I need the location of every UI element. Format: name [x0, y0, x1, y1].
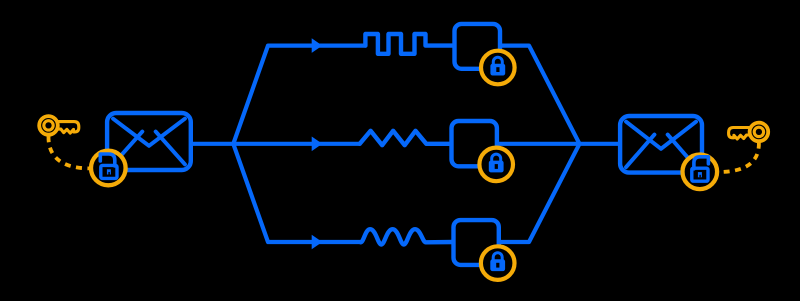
dashed link D2: key K2 to padlock P5: [718, 143, 759, 172]
arrow A3 (bottom): [312, 235, 323, 250]
dashed link D1: key K1 to padlock P4: [48, 136, 90, 168]
arrow A1 (top): [312, 38, 323, 53]
padlock P5 (open, envelope E2): [683, 155, 718, 190]
wire W4: left junction down to bottom row: [233, 144, 360, 242]
zigzag symbol (middle filter): [360, 131, 452, 145]
wire W1: envelope E1 to left junction: [189, 142, 233, 146]
key K2 (receiver key): [729, 123, 769, 142]
envelope E1 (sender): [107, 113, 191, 170]
box B2 (middle key box): [452, 121, 497, 166]
envelope E2 (receiver): [620, 116, 702, 173]
wire W6: middle box to right junction to envelope E2: [497, 142, 620, 146]
padlock P2 (closed, middle box): [479, 148, 513, 182]
key K1 (sender key): [39, 116, 79, 135]
box B3 (bottom key box): [454, 220, 499, 265]
square wave symbol (top filter): [365, 34, 454, 54]
wire W5: top box to right junction: [500, 46, 580, 144]
wire W2: left junction up to top row: [233, 46, 365, 144]
padlock P3 (closed, bottom box): [481, 246, 515, 280]
wire W7: bottom box to right junction: [499, 144, 580, 242]
node J1 (left junction): [231, 142, 235, 146]
padlock P4 (open, envelope E1): [91, 151, 126, 186]
node J2 (right junction): [578, 142, 582, 146]
box B1 (top key box): [455, 24, 501, 69]
padlock P1 (closed, top box): [481, 51, 515, 85]
arrow A2 (middle): [312, 137, 323, 152]
wire W3: middle row, junction to zigzag: [233, 142, 359, 146]
sine wave symbol (bottom filter): [361, 229, 454, 244]
